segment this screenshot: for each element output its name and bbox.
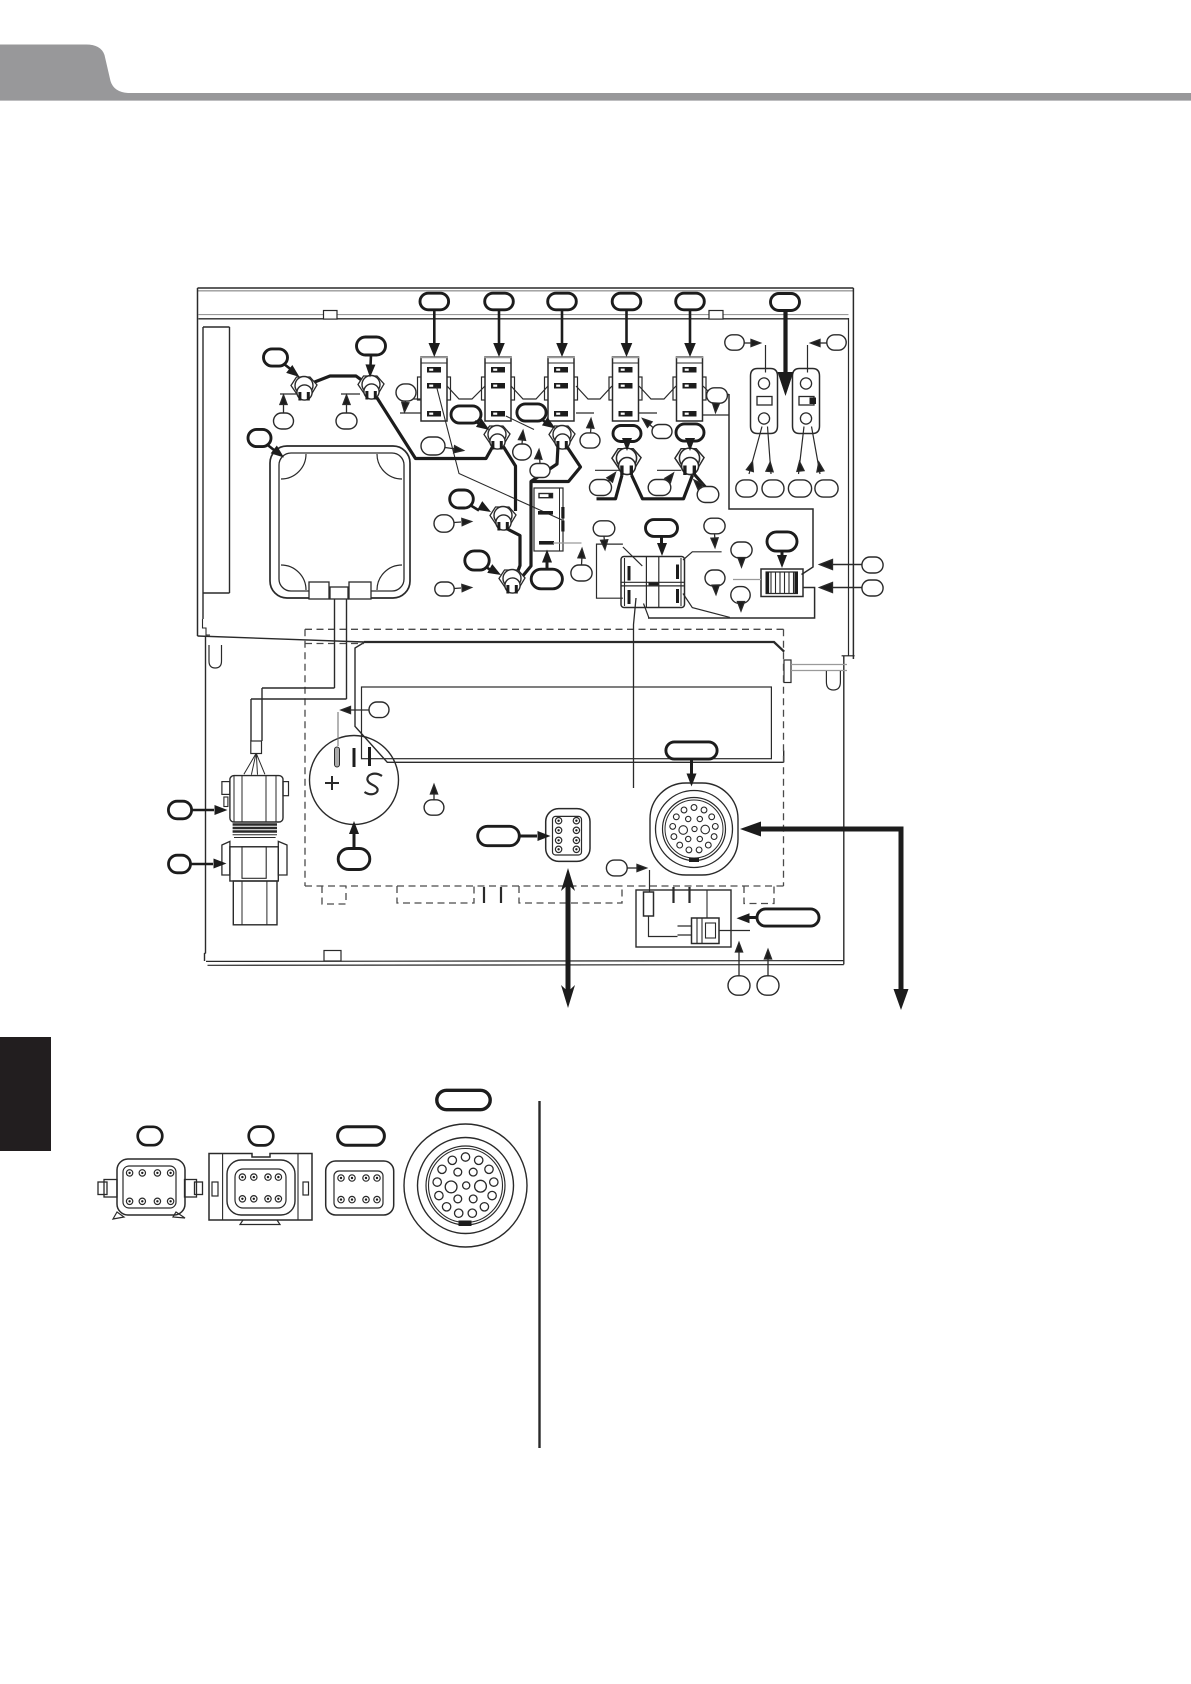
oval bolt6 term — [648, 480, 671, 496]
callout coil — [757, 909, 819, 926]
oval resistor — [606, 860, 627, 876]
breaker leader lines — [749, 345, 820, 474]
left black tab — [0, 1037, 51, 1151]
round connector rings — [656, 791, 733, 868]
arrow to coil — [749, 916, 757, 919]
right mounting tab — [784, 660, 791, 683]
connector D pins — [461, 1153, 469, 1161]
wire bolt4 right loop — [531, 446, 581, 482]
fuse gray lead — [733, 579, 761, 581]
thin arrow bolt5 term — [608, 479, 611, 482]
oval coil term 1 — [728, 976, 750, 995]
connector B outer shell — [209, 1154, 312, 1221]
bolt 2 — [358, 376, 384, 400]
thin arrow relay5 term — [715, 403, 718, 406]
connector A left latch — [98, 1182, 107, 1195]
cover corner arc BR — [377, 565, 402, 590]
arrow to battery — [353, 834, 356, 849]
arrow to bolt8 — [486, 567, 493, 572]
inter-relay link wire — [400, 386, 729, 399]
battery leader line — [337, 712, 339, 746]
arrow to wh connector2 — [191, 863, 213, 866]
callout relay3 — [548, 293, 577, 310]
callout round connector — [666, 742, 717, 759]
flasher gray lead — [553, 542, 582, 544]
wire bolt1-bolt2 bridge — [307, 376, 367, 385]
battery S mark — [365, 774, 383, 795]
contactor mid band — [621, 582, 685, 586]
callout flasher — [531, 569, 562, 589]
oval under bolt3 b — [530, 464, 550, 478]
cover bottom tab right — [349, 582, 371, 599]
panel right outer edge — [852, 288, 854, 659]
thin arrow bolt1 term — [283, 402, 285, 413]
thin arrow bolt8 term — [454, 587, 461, 590]
coil component — [692, 918, 720, 944]
dashed compartment bottom — [305, 885, 784, 887]
arrow to fuse — [781, 551, 784, 557]
upper box bottom edge — [198, 636, 365, 642]
oval breaker1 top — [725, 335, 744, 350]
big right-angle arrow — [751, 827, 901, 832]
thin arrow breaker2 top — [820, 342, 827, 344]
lower compartment left outline — [355, 643, 784, 763]
connector A body — [117, 1159, 185, 1215]
panel right inner edge — [848, 318, 850, 656]
cover corner arc BL — [281, 565, 306, 590]
arrow to flasher — [546, 561, 549, 569]
callout contactor — [646, 520, 678, 537]
contactor inner verticals — [646, 557, 658, 607]
fuse holder body — [761, 569, 803, 597]
oval relay4 term — [652, 425, 672, 439]
thin arrow contactor left — [603, 537, 606, 543]
harness outline lower — [648, 588, 815, 619]
thin arrow contactor right b — [741, 558, 743, 560]
thin arrow relay4 term — [649, 424, 653, 428]
connector A pins — [126, 1170, 132, 1176]
inner cover plate — [362, 687, 772, 759]
arrow right edge 2 — [831, 587, 862, 589]
connector A feet — [113, 1212, 185, 1219]
bolt 6 — [675, 448, 704, 475]
wh connector 1 body — [230, 776, 283, 822]
relay 2 — [482, 357, 515, 421]
oval bolt7 term — [434, 515, 454, 532]
arrow to 8-pin connector — [520, 835, 538, 838]
dashed pocket — [519, 886, 622, 903]
lower compartment top edge — [364, 642, 784, 652]
thin arrow contactor right — [714, 534, 717, 540]
header tab — [0, 45, 1191, 101]
arrow to round connector — [690, 759, 693, 774]
oval contactor right — [704, 518, 725, 534]
wire bolt7 to bolt8 — [508, 529, 521, 580]
thin arrow harness c — [715, 586, 718, 588]
oval wire left — [421, 437, 445, 455]
thin arrow coil term 2 — [767, 957, 769, 976]
arrow to breakers — [783, 311, 787, 375]
callout relay1 — [420, 293, 449, 310]
harness outline right — [729, 394, 813, 575]
contactor corner bars — [628, 566, 631, 581]
notch on inner top edge — [324, 311, 338, 320]
coil prongs — [678, 926, 692, 935]
thin arrow breaker term 2 — [766, 462, 774, 472]
flasher side clip — [561, 507, 564, 519]
relay 1 — [418, 357, 451, 421]
thin arrow flasher lead — [581, 556, 584, 565]
thin arrow battery terminal — [350, 709, 369, 711]
callout bolt2 — [357, 337, 386, 355]
oval breaker term 2 — [762, 480, 784, 497]
oval bolt5 term — [590, 480, 612, 496]
dashed pocket — [744, 886, 774, 904]
callout connector A — [138, 1127, 163, 1145]
bolt 3 — [484, 426, 510, 450]
callout bolt8 — [465, 551, 489, 570]
thin arrow breaker1 top — [744, 342, 751, 344]
resistor — [644, 892, 654, 916]
flasher top slot — [539, 494, 553, 498]
arrow to relay4 — [625, 310, 628, 345]
thin arrow bolt6 term — [667, 479, 669, 481]
bolt 1 — [291, 377, 317, 401]
arrow to bolt1 — [284, 364, 293, 371]
terminal line bolt5 — [595, 469, 620, 471]
bolt 8 — [499, 570, 525, 594]
arrow to relay5 — [689, 310, 692, 345]
oval bolt2 lower — [336, 413, 357, 429]
thin arrow breaker term 4 — [815, 461, 824, 472]
oval breaker2 top — [827, 335, 846, 350]
oval breaker term 4 — [815, 480, 838, 497]
oval right edge 1 — [862, 557, 883, 573]
wire bolt3 down to bolt7 — [503, 446, 516, 511]
terminal line bolt2 — [341, 393, 360, 395]
connector B bottom tab — [240, 1220, 280, 1225]
wh connector 2 flange — [230, 847, 278, 881]
terminal line relay1 — [400, 412, 421, 414]
wire end sleeve — [251, 741, 262, 754]
wire bolt5-bolt6 M run — [597, 475, 709, 499]
callout bolt6 — [676, 424, 704, 441]
arrow to bolt5 — [626, 442, 629, 447]
callout relay4 — [612, 293, 641, 310]
relay 4 — [609, 357, 642, 421]
oval breaker term 1 — [736, 480, 757, 497]
thin arrow bolt7 term — [454, 521, 461, 524]
left wall — [203, 327, 230, 619]
thin arrow battery right — [433, 792, 435, 800]
battery gray capsule terminal — [335, 747, 340, 767]
contactor body — [621, 557, 685, 608]
circuit breaker 2 — [793, 369, 820, 434]
panel top edge — [198, 287, 854, 289]
contactor end cap lines — [625, 558, 682, 606]
arrow to bolt6 — [689, 441, 692, 446]
arrow to contactor — [660, 537, 663, 545]
thin arrow relay3 term — [590, 427, 593, 433]
callout battery — [338, 849, 370, 870]
callout bolt7 — [450, 490, 474, 508]
callout fuse — [767, 532, 797, 551]
callout wh connector1 — [168, 801, 191, 819]
thin arrow coil term 1 — [738, 951, 740, 976]
callout bolt5 — [613, 426, 641, 442]
flasher mid bar — [538, 511, 553, 515]
bolt 7 — [490, 507, 516, 531]
oval bolt1 lower — [274, 413, 294, 429]
panel left outer edge — [197, 288, 199, 636]
fuse end bars — [766, 572, 770, 594]
diode sub-box — [636, 890, 731, 947]
coil top lead — [706, 890, 708, 918]
dashed ticks — [484, 887, 690, 903]
callout wh connector2 — [169, 855, 191, 873]
wire bolt4 down — [517, 446, 558, 583]
panel inner top edge — [198, 314, 848, 316]
gray rails to right edge — [791, 665, 847, 671]
thin arrow resistor — [627, 867, 637, 869]
contactor mid black segment — [649, 583, 659, 586]
callout cover — [248, 429, 271, 446]
battery circle — [310, 736, 399, 825]
oval breaker term 3 — [788, 480, 811, 497]
arrow to wh connector1 — [192, 809, 214, 812]
wh connector 1 seal ribs — [233, 825, 277, 832]
oval relay1 right — [396, 384, 416, 401]
leader relay3 lower bar — [506, 416, 534, 430]
round connector pins — [691, 805, 697, 811]
thin arrow harness d — [740, 604, 742, 605]
fuse holder caps — [766, 572, 799, 594]
8-pin connector body — [546, 809, 590, 862]
thin arrow under bolt3 — [521, 438, 524, 444]
arrow to bolt2 — [369, 355, 372, 366]
thin arrow bolt2 term — [346, 402, 348, 413]
oval relay3 term — [580, 433, 600, 448]
callout connector D — [437, 1090, 490, 1109]
arrow to relay2 — [498, 310, 501, 345]
circuit breaker 1 — [751, 369, 778, 434]
callout relay5 — [676, 293, 705, 310]
resistor top lead — [649, 870, 651, 892]
connector B slots — [212, 1182, 218, 1196]
connector A right latch — [185, 1180, 197, 1198]
wh connector 2 body — [233, 881, 277, 925]
cover bottom tab left — [309, 582, 329, 599]
right foot — [826, 671, 840, 690]
terminal line bolt1 — [280, 393, 302, 395]
coil right lead — [719, 930, 750, 932]
bolt 4 — [549, 426, 575, 450]
thin arrow breaker term 3 — [796, 461, 804, 471]
oval bolt8 term — [435, 582, 454, 596]
wire bolt2 to bolt3 — [372, 390, 493, 459]
connector C pins — [338, 1175, 344, 1181]
leader relay1 to flasher clip — [437, 387, 563, 521]
callout bolt1 — [264, 349, 288, 366]
dashed pocket — [397, 886, 474, 903]
oval contactor right b — [731, 542, 752, 558]
relay 3 — [545, 357, 578, 421]
left wall foot mark — [203, 619, 211, 635]
terminal line relay3 — [576, 412, 594, 414]
wh connector 1 left ear — [222, 782, 230, 795]
callout bolt4 — [517, 404, 546, 421]
connector B pins — [239, 1174, 245, 1180]
lower tray right edge — [843, 656, 845, 964]
oval contactor left — [593, 521, 615, 536]
oval harness c — [705, 570, 725, 586]
oval coil term 2 — [757, 976, 779, 995]
terminal line bolt6 — [657, 469, 681, 471]
battery plus sign — [325, 776, 339, 790]
contactor bracket right — [683, 552, 730, 618]
contactor bottom-left leader — [644, 604, 649, 618]
cover corner arc TR — [377, 454, 402, 479]
notch on inner top edge — [709, 311, 723, 320]
terminal line relay4 — [639, 412, 657, 414]
contactor wire down — [634, 598, 637, 788]
panel bottom right joint — [842, 655, 855, 657]
panel left inner edge — [205, 636, 206, 961]
thin arrow bolt6 right — [700, 486, 702, 488]
oval battery terminal — [369, 702, 389, 718]
dashed pocket — [322, 886, 346, 904]
arrow to cover — [267, 445, 274, 451]
battery bar terminals — [353, 748, 356, 767]
dashed compartment top — [305, 628, 784, 630]
breaker2 slot black half — [810, 398, 817, 405]
oval flasher lead — [571, 565, 592, 581]
round connector index notch — [689, 858, 699, 862]
wh connector 1 right ear — [283, 782, 289, 796]
dashed compartment second line — [305, 643, 364, 645]
dashed compartment left — [304, 629, 306, 886]
flasher unit body — [534, 488, 563, 551]
callout connector C — [338, 1127, 385, 1146]
relay box cover (big rounded square) — [270, 446, 410, 598]
arrow right edge 1 — [831, 564, 862, 566]
8-pin connector pins — [555, 818, 561, 824]
oval right edge 2 — [862, 580, 883, 596]
oval harness d — [731, 587, 750, 604]
flasher bottom bar — [539, 541, 554, 545]
terminal line relay5 — [703, 414, 729, 416]
thin arrow wire left — [445, 448, 456, 450]
cover bottom tab mid — [330, 587, 348, 599]
arrow to bolt3 — [475, 421, 482, 426]
wire pair from cover down — [251, 599, 347, 741]
arrow to relay1 — [433, 310, 436, 345]
cover corner arc TL — [281, 454, 306, 479]
round connector outer square — [650, 783, 738, 875]
fuse hatch — [771, 572, 794, 594]
callout 8-pin connector — [478, 826, 520, 845]
left foot — [209, 645, 222, 668]
section divider line — [538, 1101, 540, 1448]
oval bolt6 right — [697, 487, 719, 503]
callout breakers — [771, 294, 800, 311]
callout connector B — [249, 1127, 274, 1146]
arrow to bolt7 — [470, 505, 479, 511]
arrow to bolt4 — [541, 419, 548, 424]
callout relay2 — [485, 293, 514, 310]
thin arrow breaker term 1 — [746, 461, 756, 472]
dashed compartment right — [783, 629, 785, 886]
connector D index notch — [459, 1221, 472, 1227]
bottom notch block — [324, 951, 341, 962]
callout bolt3 — [451, 406, 481, 423]
connector C body — [326, 1161, 394, 1215]
lower tray bottom edge — [206, 961, 844, 966]
connector D rings — [404, 1124, 527, 1247]
thin arrow relay1 right — [404, 401, 407, 405]
arrow to relay3 — [561, 310, 564, 345]
wh connector 2 right wing — [278, 841, 287, 875]
relay 5 — [673, 357, 706, 421]
thin arrow under bolt3 b — [539, 457, 542, 464]
oval relay5 term — [707, 388, 728, 403]
wire fan to connector — [244, 754, 265, 775]
bolt 5 — [612, 448, 641, 475]
connector B inner square — [227, 1160, 295, 1215]
big double-headed arrow — [566, 880, 571, 999]
resistor lead — [649, 916, 678, 937]
contactor bracket left — [597, 544, 643, 598]
wh connector 2 left wing — [222, 841, 230, 875]
oval battery right — [424, 800, 444, 815]
oval under bolt3 — [513, 444, 532, 460]
